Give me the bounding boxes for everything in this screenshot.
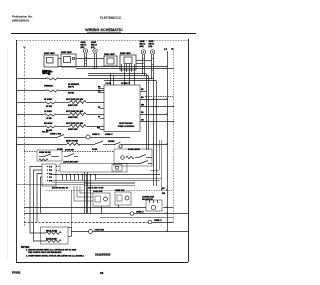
bus wire y66.5 bbox=[58, 66, 167, 68]
svg-text:P D: P D bbox=[49, 177, 53, 179]
svg-text:WH: WH bbox=[162, 193, 166, 195]
N vertical wire dashed bbox=[173, 51, 175, 222]
svg-text:BK: BK bbox=[162, 188, 165, 190]
svg-text:BK RD: BK RD bbox=[68, 93, 75, 95]
EOC row y106.5 bbox=[140, 106, 174, 108]
left verticals to bottom bus bbox=[84, 172, 86, 213]
row y207.5 bbox=[24, 205, 174, 208]
row y217.5 bbox=[100, 217, 174, 219]
svg-text:OVEN LT: OVEN LT bbox=[136, 212, 145, 214]
switch row y114 with coil bbox=[16, 111, 104, 120]
svg-text:COOL FAN: COOL FAN bbox=[93, 190, 103, 193]
svg-text:OVEN LT: OVEN LT bbox=[105, 134, 114, 136]
svg-text:P5: P5 bbox=[98, 107, 100, 109]
svg-text:FLEF398CCC: FLEF398CCC bbox=[100, 16, 122, 20]
svg-text:OVEN FAN: OVEN FAN bbox=[115, 189, 125, 192]
dashed row y190 bbox=[46, 190, 174, 192]
svg-text:P B: P B bbox=[49, 170, 53, 172]
title WIRING SCHEMATIC bbox=[85, 28, 123, 32]
bus wire y75.5 bbox=[88, 75, 149, 77]
frame left border bbox=[16, 40, 18, 262]
latch switch assembly box bbox=[56, 161, 127, 172]
svg-text:MEAT PROBE: MEAT PROBE bbox=[66, 140, 79, 143]
svg-text:16: 16 bbox=[100, 271, 104, 275]
svg-text:N: N bbox=[172, 47, 174, 51]
svg-text:DOOR SW: DOOR SW bbox=[65, 150, 74, 152]
scan artifact line left margin bbox=[7, 48, 9, 260]
surface unit box B4 bbox=[111, 53, 152, 85]
svg-text:57623: 57623 bbox=[12, 271, 21, 275]
bus wire y80.5 bbox=[104, 80, 156, 82]
junction dots EOC rows bbox=[145, 96, 174, 122]
svg-text:P11: P11 bbox=[97, 127, 100, 129]
bus wire y78.5 bbox=[100, 78, 154, 80]
svg-text:RR SURF: RR SURF bbox=[44, 123, 53, 125]
EOC row y114 bbox=[140, 114, 167, 116]
EOC row y99 bbox=[140, 99, 167, 101]
bus bend vertical x148.5 bbox=[148, 76, 150, 151]
EOC left pin y88.5 bbox=[98, 88, 104, 90]
svg-text:HOT SURF IND SW: HOT SURF IND SW bbox=[66, 111, 83, 113]
svg-text:SURF UNIT: SURF UNIT bbox=[68, 105, 78, 107]
surface unit box B2 bbox=[61, 52, 104, 67]
svg-text:OVEN LT: OVEN LT bbox=[154, 220, 163, 222]
svg-text:SURF UNIT: SURF UNIT bbox=[44, 53, 55, 55]
svg-text:P9 OR: P9 OR bbox=[106, 83, 112, 85]
surface indicator lamp left 2 bbox=[91, 42, 98, 69]
header publication text bbox=[12, 15, 122, 23]
svg-text:ELECTRONIC: ELECTRONIC bbox=[119, 123, 133, 125]
svg-text:P11 GY: P11 GY bbox=[42, 132, 49, 134]
bus bend vertical x146 bbox=[146, 74, 148, 151]
svg-text:LF SURF: LF SURF bbox=[44, 111, 53, 113]
oven light row y137 bbox=[16, 134, 130, 140]
surface unit box B1 bbox=[42, 53, 61, 76]
svg-text:SURF UNIT: SURF UNIT bbox=[61, 52, 72, 54]
op EOC control box bbox=[104, 83, 140, 132]
frame bottom border bbox=[16, 262, 188, 264]
svg-text:SURF UNIT: SURF UNIT bbox=[68, 117, 78, 119]
svg-text:DOOR LATCH: DOOR LATCH bbox=[128, 148, 141, 151]
surface indicator lamp right 2 bbox=[149, 41, 156, 79]
door switch right bbox=[64, 150, 78, 157]
bus bend vertical x156 bbox=[156, 81, 158, 187]
row y231.5 with lamp bbox=[71, 229, 188, 234]
surface indicator lamp left 1 bbox=[81, 42, 88, 67]
svg-text:P4 BK: P4 BK bbox=[92, 148, 98, 151]
wire labels band bbox=[52, 188, 104, 190]
convection fan motor box bbox=[142, 197, 162, 212]
svg-text:HOT SURF IND SW: HOT SURF IND SW bbox=[66, 99, 83, 101]
title underline bbox=[87, 31, 121, 33]
row y144 with resistor and probe bbox=[16, 140, 168, 148]
bus wire y73.5 bbox=[88, 73, 146, 75]
connector block P1 bbox=[42, 164, 56, 186]
EOC right stub y91 bbox=[140, 91, 146, 93]
nested box lines above motors bbox=[84, 183, 135, 185]
svg-text:LIMITER: LIMITER bbox=[42, 73, 50, 75]
svg-text:(LR): (LR) bbox=[149, 46, 153, 48]
svg-text:P7: P7 bbox=[98, 116, 100, 118]
svg-text:BK: BK bbox=[141, 89, 144, 91]
svg-text:NOTES:: NOTES: bbox=[21, 247, 30, 249]
svg-text:P8 WH P7: P8 WH P7 bbox=[121, 83, 130, 85]
switch row y126 with coil bbox=[16, 123, 104, 134]
L1 vertical wire bbox=[167, 51, 169, 232]
svg-text:LF SW: LF SW bbox=[46, 118, 52, 120]
bracket to element box bbox=[68, 227, 72, 237]
svg-text:THIS OVEN IS ONLY USE RELEASED: THIS OVEN IS ONLY USE RELEASED bbox=[28, 251, 62, 254]
connector wires bending down bbox=[30, 167, 46, 242]
svg-text:FAN MOTOR: FAN MOTOR bbox=[142, 198, 153, 201]
oven door switch box bbox=[37, 150, 62, 161]
svg-text:2. COMPONENTS NOTE: ATTACH AR: 2. COMPONENTS NOTE: ATTACH ARE LISTED ON… bbox=[26, 254, 85, 257]
svg-text:SURF UNIT: SURF UNIT bbox=[120, 53, 131, 55]
svg-text:OR YL BR VT GN: OR YL BR VT GN bbox=[88, 188, 104, 190]
inner dashed vertical bbox=[24, 47, 26, 226]
svg-text:OVEN CONTROL: OVEN CONTROL bbox=[118, 126, 135, 128]
svg-text:OVEN DR SW: OVEN DR SW bbox=[39, 152, 51, 154]
switch row y78 bbox=[16, 70, 100, 80]
svg-text:(RF): (RF) bbox=[81, 47, 85, 49]
svg-text:CONV FAN: CONV FAN bbox=[95, 229, 105, 232]
row y213 with lamp bbox=[24, 212, 188, 216]
switch row y102 with coil bbox=[16, 99, 104, 108]
notes block bbox=[21, 247, 111, 258]
svg-text:OVEN LT: OVEN LT bbox=[92, 134, 101, 136]
svg-text:BR: BR bbox=[141, 97, 144, 99]
dashed row y151.5 bbox=[24, 148, 114, 152]
svg-text:OVEN LT SW: OVEN LT SW bbox=[50, 134, 61, 136]
svg-text:RF SURF: RF SURF bbox=[44, 99, 53, 101]
EOC left pin y118 bbox=[100, 118, 104, 120]
svg-text:P A: P A bbox=[49, 165, 53, 168]
EOC left pin y92.5 bbox=[98, 92, 104, 94]
row y222 with lamp bbox=[24, 220, 174, 224]
motor box A bbox=[93, 190, 110, 213]
right nested corners bbox=[150, 170, 159, 172]
svg-text:SW P1: SW P1 bbox=[68, 87, 74, 89]
svg-text:316253328: 316253328 bbox=[95, 253, 111, 257]
EOC left pin y129 bbox=[100, 129, 104, 131]
svg-text:L1: L1 bbox=[164, 47, 168, 51]
svg-text:RD: RD bbox=[141, 112, 144, 114]
EOC row y121.5 bbox=[140, 121, 174, 123]
svg-text:SURF UNIT: SURF UNIT bbox=[68, 129, 78, 131]
svg-text:1. CIRCUIT SHOWN WITH ALL CON: 1. CIRCUIT SHOWN WITH ALL CONTROLS OFF A… bbox=[26, 249, 77, 252]
surface indicator lamp right 1 bbox=[140, 41, 147, 76]
mid bus y174 with junction dots bbox=[50, 174, 160, 213]
surface unit box B3 bbox=[104, 54, 117, 66]
motor box B bbox=[115, 189, 131, 205]
svg-text:BK WH RD BU GY: BK WH RD BU GY bbox=[52, 188, 69, 190]
svg-text:(RR): (RR) bbox=[140, 46, 144, 48]
svg-text:(LF): (LF) bbox=[91, 47, 95, 49]
svg-text:WIRING SCHEMATIC: WIRING SCHEMATIC bbox=[85, 28, 123, 32]
svg-text:HOT SURF IND SW: HOT SURF IND SW bbox=[66, 123, 83, 125]
oven cavity element box bbox=[41, 227, 69, 244]
frame right border bbox=[188, 39, 190, 262]
svg-text:THERMAL: THERMAL bbox=[44, 85, 54, 88]
nested corner cascade bbox=[80, 186, 93, 193]
svg-text:PROBE: PROBE bbox=[108, 141, 115, 143]
bus bend vertical x153.5 bbox=[153, 79, 155, 187]
EOC dashed row y96.5 bbox=[146, 96, 174, 98]
door latch circuit box bbox=[114, 148, 152, 166]
switch row y90 bbox=[16, 84, 104, 95]
frame top border bbox=[16, 40, 188, 42]
svg-text:RF SW: RF SW bbox=[46, 106, 52, 108]
junction dots on bus bbox=[84, 66, 168, 79]
svg-text:LATCH SW ASSY: LATCH SW ASSY bbox=[63, 161, 79, 164]
left horizontal row y184 bbox=[16, 184, 84, 186]
svg-text:SURF UNIT: SURF UNIT bbox=[104, 54, 115, 56]
header rule bbox=[11, 33, 196, 35]
svg-text:5995399933: 5995399933 bbox=[12, 19, 29, 23]
EOC left pin y108.5 bbox=[100, 108, 104, 110]
bus wire y68.5 bbox=[76, 68, 174, 70]
